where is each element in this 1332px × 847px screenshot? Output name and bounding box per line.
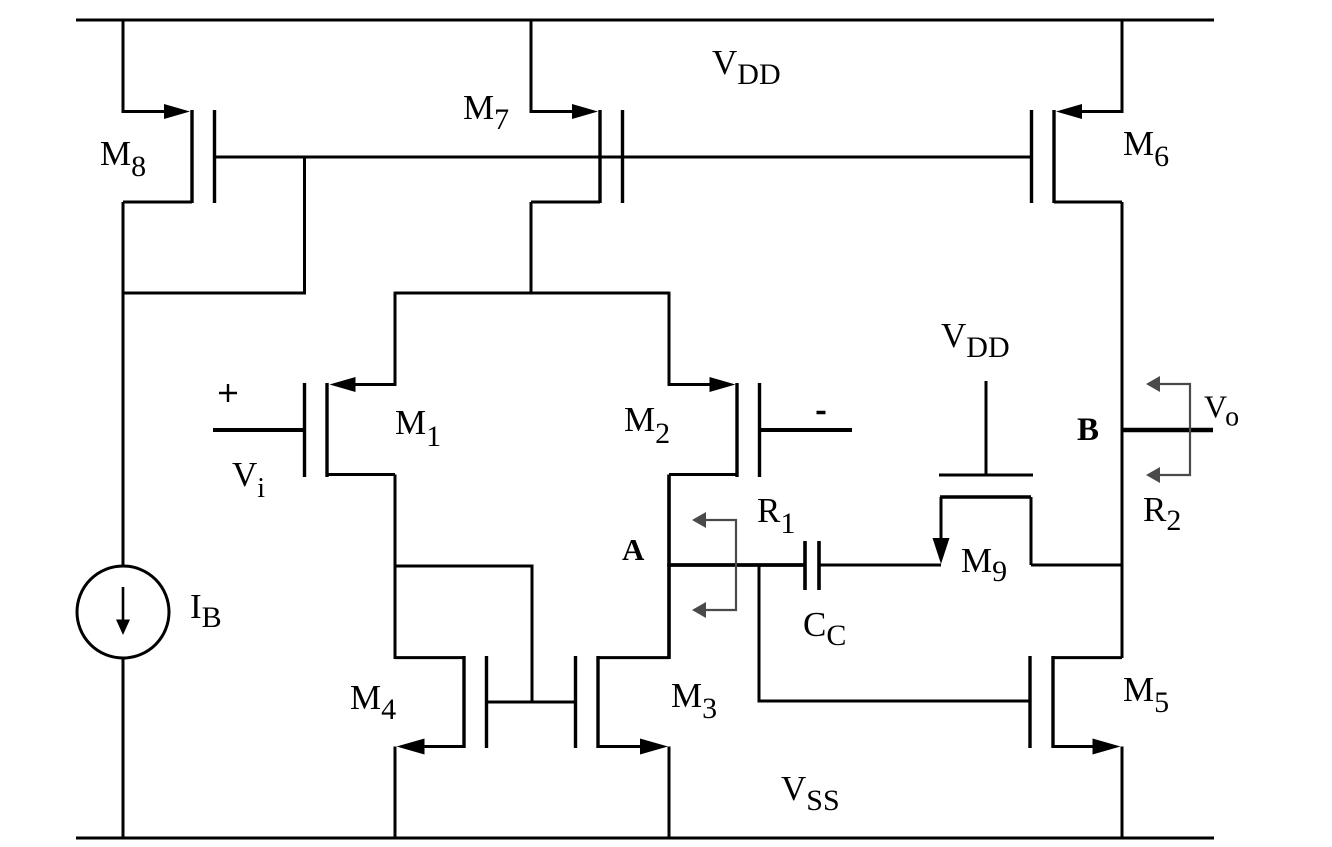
wire capacitor to M9: [819, 564, 941, 567]
VSS rail: [76, 837, 1214, 840]
wire differential pair top rail: [395, 292, 669, 295]
wire gate line M8-M7-M6: [215, 156, 1032, 159]
svg-text:M3: M3: [671, 676, 717, 725]
wire M6 source drop: [1121, 20, 1124, 113]
wire M5 source to VSS: [1121, 747, 1124, 839]
wire M2 source drop: [668, 292, 671, 386]
svg-text:R1: R1: [757, 491, 795, 540]
wire M1 gate lead: [213, 428, 305, 432]
transistor M1: [305, 377, 396, 477]
svg-text:M4: M4: [350, 678, 396, 726]
wire output stub Vo: [1122, 428, 1213, 432]
wire node A to capacitor: [667, 563, 805, 567]
wire right rail M6 drain to M5 drain: [1121, 202, 1124, 658]
transistor M9: [933, 381, 1123, 565]
transistor M4: [395, 656, 487, 755]
transistor M8: [123, 104, 215, 203]
wire mirror gate line M4-M3: [487, 701, 576, 704]
wire M8 gate-drain loop: [123, 157, 305, 293]
transistor M3: [576, 656, 670, 755]
svg-text:IB: IB: [190, 587, 222, 634]
wire M1 drain down: [394, 475, 397, 660]
VDD rail: [76, 19, 1214, 22]
transistor M6: [1032, 104, 1123, 203]
svg-text:B: B: [1077, 412, 1099, 448]
svg-text:Vi: Vi: [232, 455, 265, 504]
wire M3 source to VSS: [668, 747, 671, 839]
label plus: [219, 384, 237, 402]
resistance marker R2: [1146, 376, 1190, 483]
resistance marker R1: [692, 512, 736, 618]
svg-text:Vo: Vo: [1204, 389, 1239, 433]
wire M4 source to VSS: [394, 747, 397, 839]
wire mirror tap M1 drain to gates: [395, 566, 532, 703]
wire node A to M5 gate: [759, 565, 1030, 701]
wire M7 source drop: [530, 20, 533, 113]
current source IB: [77, 566, 169, 658]
svg-text:R2: R2: [1143, 490, 1181, 537]
svg-text:VDD: VDD: [941, 316, 1010, 364]
transistor M5: [1030, 656, 1122, 755]
transistor M7: [531, 104, 623, 203]
wire M7 drain drop: [530, 202, 533, 294]
wire IB to VSS: [122, 658, 125, 838]
transistor M2: [669, 377, 760, 477]
wire M8 drain down left rail: [122, 202, 125, 567]
svg-text:A: A: [622, 532, 645, 567]
svg-text:M2: M2: [624, 400, 670, 450]
wire M1 source drop: [394, 292, 397, 386]
svg-text:M8: M8: [100, 134, 146, 183]
wire M2 gate lead: [760, 428, 853, 432]
svg-text:M5: M5: [1123, 670, 1169, 719]
svg-text:M9: M9: [961, 541, 1007, 588]
wire M2 drain down to node A: [667, 475, 671, 660]
svg-text:M1: M1: [395, 403, 441, 453]
svg-text:M6: M6: [1123, 124, 1169, 173]
svg-text:M7: M7: [463, 88, 509, 136]
svg-text:CC: CC: [803, 605, 846, 652]
svg-text:VSS: VSS: [781, 769, 840, 817]
svg-text:VDD: VDD: [712, 43, 781, 91]
label minus: [817, 411, 826, 415]
wire M8 source drop: [122, 20, 125, 113]
capacitor CC: [805, 541, 819, 590]
